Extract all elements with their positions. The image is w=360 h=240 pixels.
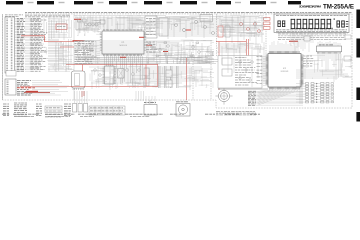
red-flagged module bbox=[218, 18, 270, 38]
TX-RX unit components bbox=[225, 26, 230, 37]
IC3 LCD driver bbox=[317, 45, 342, 52]
connector CN2 bbox=[5, 79, 16, 95]
external connectors group bbox=[73, 104, 88, 113]
mid-top wires bbox=[140, 17, 265, 37]
value labels right of IC1 bbox=[146, 42, 158, 52]
red power net (long) bbox=[20, 58, 187, 100]
shift register internal labels bbox=[235, 58, 259, 86]
section border (dashed frame) bbox=[3, 14, 352, 108]
svg-text:IC2: IC2 bbox=[283, 68, 286, 70]
mid column divider bbox=[73, 14, 75, 100]
part right of LCD bbox=[345, 35, 351, 39]
key matrix diodes bbox=[316, 83, 318, 103]
CN2 net labels bbox=[17, 81, 69, 95]
resistor ladder bars bbox=[159, 66, 179, 88]
shielded module (rounded) bbox=[72, 71, 86, 88]
key switch matrix bbox=[296, 83, 329, 103]
LCD small digits right bbox=[337, 21, 345, 28]
connector CN1 bbox=[5, 17, 15, 73]
IC2 left approach wires bbox=[257, 57, 266, 86]
LCD pin rows below bbox=[278, 34, 346, 39]
LCD small digits left bbox=[278, 21, 286, 28]
left-mid vertical bundle bbox=[56, 39, 71, 72]
bottom-right notes bbox=[216, 112, 256, 115]
discrete cluster around IC1 bbox=[75, 42, 200, 61]
top-left corner labels bbox=[5, 15, 23, 17]
module pins bbox=[73, 88, 84, 90]
small header box above CN2 bbox=[6, 71, 16, 77]
TX-RX wires bbox=[216, 16, 267, 35]
IC1 bottom fanout bbox=[76, 56, 234, 84]
control section red rails bbox=[216, 39, 249, 90]
right column parts bbox=[304, 36, 351, 61]
LCD main digits bbox=[291, 19, 333, 29]
page edge index bars bbox=[356, 10, 360, 122]
audio section components bbox=[78, 19, 106, 26]
IC3 area labels bbox=[303, 56, 313, 66]
key scan bus rows bbox=[248, 91, 303, 105]
IC3 fanout wires bbox=[296, 54, 349, 78]
wiring noise layers bbox=[44, 15, 352, 88]
control small parts bbox=[239, 61, 254, 82]
LCD bottom pin labels bbox=[276, 30, 347, 32]
crystal X1 bbox=[118, 69, 125, 79]
LCD display DS1 bbox=[274, 14, 349, 32]
key matrix right column bbox=[331, 83, 334, 103]
CN1 net label rows bbox=[15, 18, 75, 71]
shift register box bbox=[218, 56, 262, 89]
legend table bbox=[45, 106, 62, 117]
IC2 bottom pin fan-out (diagonal) bbox=[258, 89, 299, 105]
IF filter bank FL1 bbox=[145, 16, 168, 38]
footnote line bbox=[2, 114, 260, 116]
mic connector MJ1 bbox=[215, 88, 232, 104]
lower-mid discretes bbox=[94, 68, 172, 87]
page header index blocks bbox=[6, 1, 301, 4]
adjustment notes (red) bbox=[73, 19, 299, 58]
LCD top pin labels bbox=[276, 14, 347, 16]
LCD bottom pin ticks bbox=[277, 32, 347, 33]
key matrix left bus bbox=[300, 80, 302, 104]
IC2 top wires bbox=[270, 40, 298, 51]
red signal trace B bbox=[60, 46, 74, 48]
left board edge line bbox=[2, 14, 4, 100]
LCD to IC2 drop wires bbox=[291, 33, 313, 52]
IC2 pin hatch bbox=[266, 51, 304, 89]
upper-left vertical wires bbox=[44, 15, 72, 40]
legend text columns bbox=[3, 103, 71, 116]
upper-left label rows bbox=[25, 15, 70, 17]
component value labels left of IC1 bbox=[75, 42, 97, 64]
svg-text:TM-255A/E: TM-255A/E bbox=[323, 3, 354, 10]
speaker label bbox=[176, 101, 188, 103]
power connector box bbox=[144, 100, 157, 115]
svg-text:SCHEMATIC DIAGRAM: SCHEMATIC DIAGRAM bbox=[299, 5, 321, 9]
red signal trace A bbox=[21, 36, 74, 42]
speaker SP1 bbox=[176, 104, 190, 117]
lower-mid wires bbox=[89, 67, 213, 83]
control wires bbox=[217, 44, 265, 52]
IC3 wires to LCD bbox=[318, 41, 340, 46]
IC2 microprocessor (QFP) bbox=[268, 54, 301, 88]
red net bottom-left bbox=[24, 91, 50, 93]
IC1 pin hatch bbox=[100, 29, 147, 56]
red vertical mark bbox=[82, 91, 84, 97]
top part-number strip bbox=[25, 12, 352, 14]
LCD annunciators bbox=[334, 19, 349, 28]
control bus dark bbox=[218, 88, 268, 90]
relay box K1 (red highlight) bbox=[56, 24, 67, 30]
connector pin table bbox=[89, 106, 125, 115]
wires above IC1 bbox=[76, 15, 142, 31]
mic pin stubs bbox=[221, 93, 227, 99]
IC1 FM system IC bbox=[102, 31, 144, 54]
IC4 DIP bbox=[103, 66, 117, 84]
svg-text:M38267M8: M38267M8 bbox=[281, 71, 289, 73]
mid wires grid bbox=[76, 41, 213, 64]
IC3 pin hatch bbox=[318, 52, 341, 54]
drop wires to bottom connectors bbox=[75, 91, 156, 104]
audio section wires bbox=[74, 16, 185, 30]
title: SCHEMATIC DIAGRAM TM-255A/E bbox=[299, 3, 354, 10]
VCO shield box bbox=[200, 15, 213, 22]
transistors Q5 Q6 Q7 bbox=[175, 21, 215, 35]
key matrix top feed bbox=[334, 54, 341, 82]
